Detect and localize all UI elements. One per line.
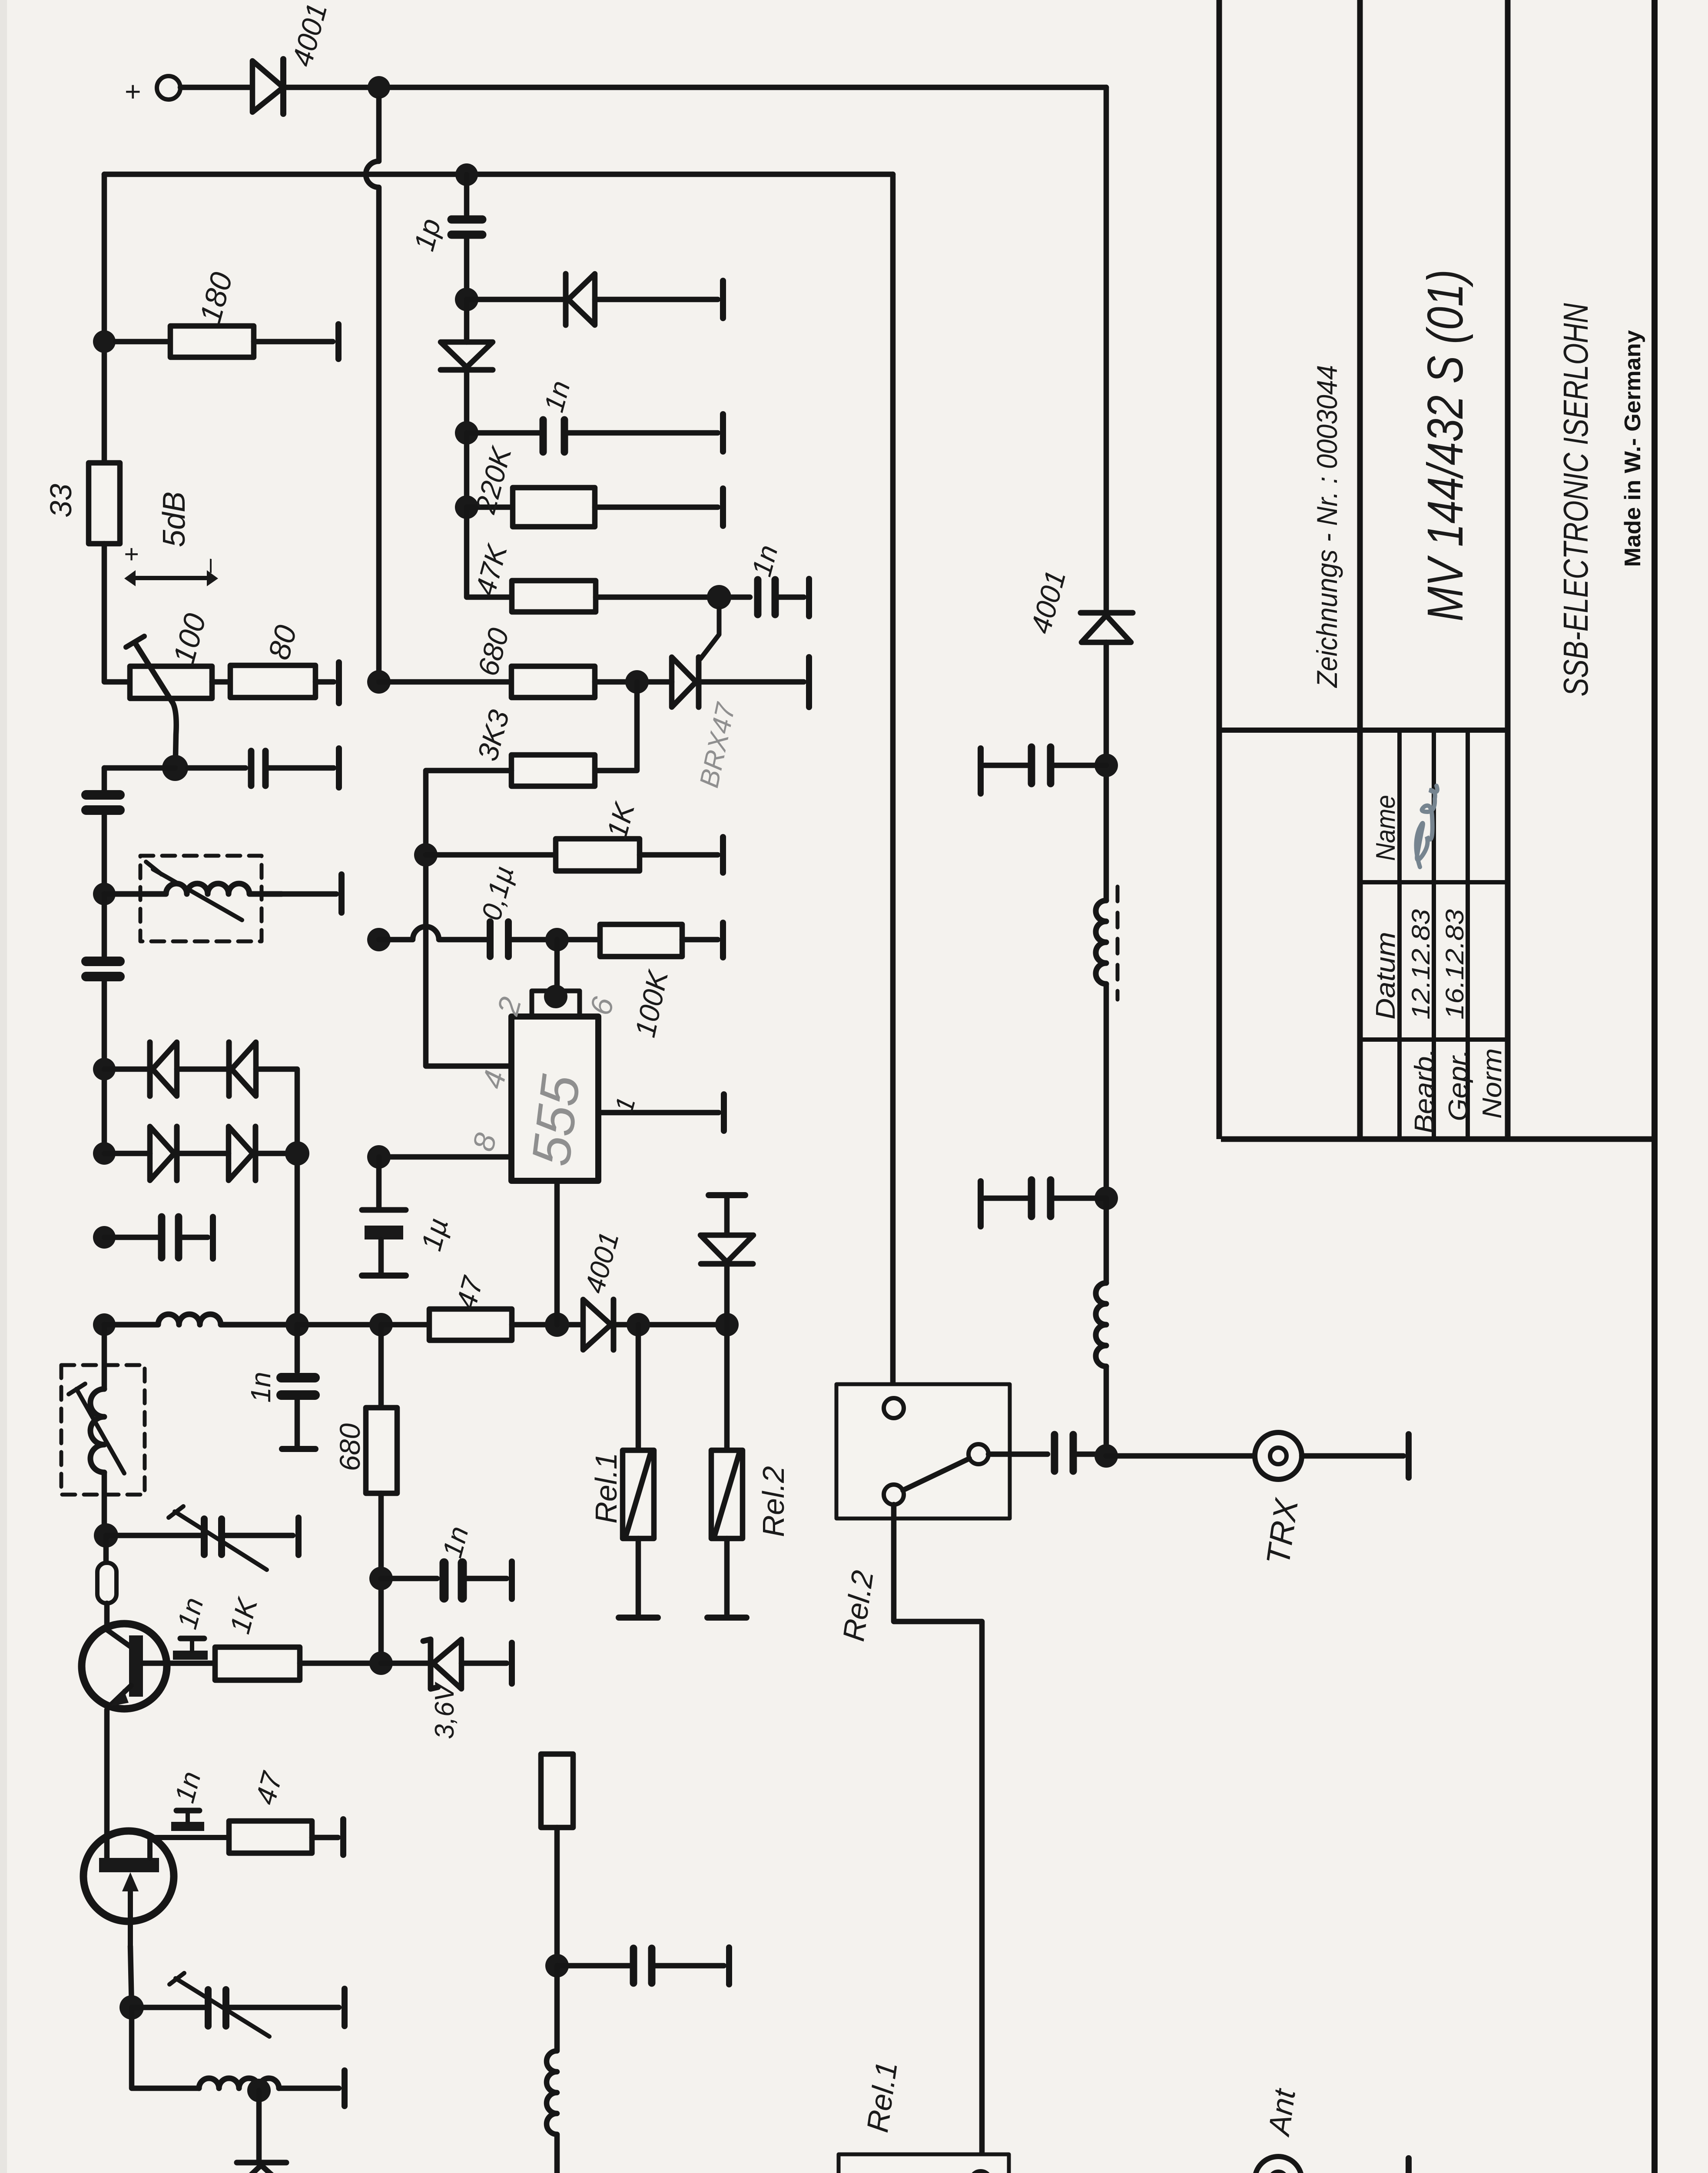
node wiper (162, 755, 188, 781)
node (1094, 754, 1118, 777)
inductor (gate coil) (199, 2078, 279, 2088)
wire (512, 937, 600, 943)
diode limiter D4 (177, 1151, 229, 1156)
ground (978, 748, 984, 794)
wire (312, 1835, 338, 1841)
wire (379, 679, 511, 685)
potentiometer 100 (130, 666, 212, 698)
wire (180, 85, 251, 90)
svg-text:Bearb.: Bearb. (1410, 1048, 1439, 1133)
ground (720, 923, 726, 957)
wire (106, 1533, 201, 1538)
svg-text:Rel.1: Rel.1 (589, 1452, 623, 1523)
wire (1106, 1453, 1255, 1459)
resistor 80 (230, 665, 315, 698)
ground (335, 324, 342, 359)
svg-text:Ant: Ant (1262, 2086, 1302, 2139)
wire (512, 1322, 580, 1328)
wire left bus down from corner (102, 174, 107, 463)
wire (467, 297, 563, 302)
node Rel.1 drive (627, 1313, 650, 1336)
node 1p tap (455, 163, 478, 186)
node 0,1u row (367, 928, 391, 951)
wire (595, 297, 718, 302)
node main RX bus left (93, 1313, 116, 1336)
node (545, 928, 569, 951)
ground (978, 1181, 984, 1226)
node 555 output (545, 1312, 569, 1337)
node (455, 288, 478, 311)
pin 8 wire (379, 1154, 511, 1160)
wire (279, 2086, 339, 2091)
wire (464, 433, 470, 507)
capacitor 1n (detector) (540, 420, 547, 452)
capacitor 1n (RX bus) (295, 1325, 300, 1372)
title block frame (1217, 0, 1222, 1139)
pin 3 wire (554, 1181, 560, 1325)
ground (720, 281, 726, 318)
relay Rel.2 (switch) (836, 1384, 1010, 1518)
wire (682, 937, 718, 943)
ground (726, 1947, 732, 1984)
wire base (143, 1661, 215, 1666)
capacitor (coupling lower) (985, 1196, 1028, 1201)
ground (338, 874, 345, 913)
node zener row (369, 1651, 393, 1675)
diode 4001 (supply) (252, 61, 283, 112)
inductor (RX line choke) (104, 1314, 297, 1325)
wire (1104, 642, 1109, 900)
relay coil Rel.1 (636, 1325, 641, 1450)
wire (1104, 984, 1109, 1198)
node Ant connector (1255, 2156, 1302, 2173)
svg-text:Made in W.- Germany: Made in W.- Germany (1620, 330, 1645, 567)
wire (212, 679, 230, 685)
wire (182, 1235, 208, 1240)
wire (188, 765, 245, 771)
diode (gate clamp) (256, 2090, 262, 2160)
svg-text:Name: Name (1371, 795, 1401, 861)
diode (relay clamp to ground) (709, 1192, 745, 1198)
wire (779, 595, 804, 600)
wire (102, 768, 107, 790)
op-amp U1 555 timer (532, 991, 580, 1017)
inductor (ladder choke) (547, 1966, 557, 2173)
wire (595, 679, 672, 685)
node (119, 1995, 144, 2020)
node + supply terminal (157, 76, 180, 100)
svg-text:Rel.2: Rel.2 (756, 1466, 790, 1537)
wire (596, 595, 750, 600)
resistor 47K (512, 581, 596, 612)
wire (595, 505, 718, 510)
node (455, 495, 478, 519)
resistor 680 (511, 666, 595, 698)
resistor 220K (467, 505, 513, 510)
resistor 180 (170, 326, 254, 357)
capacitor 1n (driver) (381, 1576, 437, 1582)
capacitor (series, bus 2) (86, 957, 120, 966)
node (247, 2079, 271, 2102)
node limiter row 2 (93, 1142, 116, 1165)
svg-text:5dB: 5dB (157, 492, 192, 547)
diode limiter D3 (104, 1151, 150, 1156)
diode limiter D1 (147, 1042, 153, 1096)
wire (102, 894, 107, 956)
pot wiper arm (135, 642, 176, 757)
capacitor (ladder bypass) (557, 1963, 630, 1969)
ground (806, 579, 812, 616)
wire (1104, 1366, 1109, 1456)
wire (256, 1069, 297, 1325)
pin 1 wire (598, 1110, 719, 1116)
diode (detector top) (563, 274, 569, 325)
node (367, 1145, 391, 1169)
ground (720, 837, 726, 873)
ground (1406, 1434, 1412, 1478)
ground (336, 662, 342, 703)
wire (102, 981, 107, 1153)
ground (336, 748, 342, 787)
node bypass row (93, 1226, 116, 1249)
svg-text:–: – (195, 558, 223, 573)
relay coil Rel.2 (724, 1325, 730, 1450)
wire (104, 1603, 110, 1630)
capacitor 1p (451, 216, 482, 224)
svg-text:555: 555 (521, 1072, 591, 1169)
wire (104, 544, 130, 682)
wire bus2 (104, 172, 893, 177)
diode limiter D2 (226, 1042, 232, 1096)
svg-text:+: + (117, 547, 146, 562)
wire V+ rail with hop over bus2 (366, 99, 379, 671)
wire (297, 1322, 381, 1328)
node trimmer tap (94, 1523, 118, 1548)
wire antenna feed down (1104, 87, 1109, 609)
relay Rel.1 (switch) (839, 2154, 1009, 2173)
svg-text:Norm: Norm (1477, 1048, 1507, 1119)
ground (1406, 2158, 1412, 2173)
ground (720, 414, 726, 452)
resistor 3K3 (511, 755, 595, 786)
capacitor (series, bus) (86, 790, 120, 800)
svg-text:Zeichnungs - Nr. : 0003044: Zeichnungs - Nr. : 0003044 (1311, 365, 1343, 688)
svg-text:16.12.83: 16.12.83 (1441, 909, 1469, 1020)
wire (269, 765, 334, 771)
svg-text:33: 33 (44, 484, 78, 518)
wire (132, 2005, 205, 2010)
ground (295, 1518, 302, 1555)
node (369, 1567, 393, 1590)
wire (177, 1067, 229, 1072)
wire (467, 507, 512, 597)
wire left bus into oscillator (102, 1325, 107, 1389)
wire (104, 765, 175, 771)
wire (102, 815, 107, 894)
node Rel.2 drive (715, 1313, 739, 1336)
node (545, 1954, 569, 1977)
wire (104, 1235, 158, 1240)
node gate tap (707, 585, 731, 609)
ground (806, 657, 812, 707)
resistor (output ladder) (541, 1754, 573, 1827)
wire (225, 1533, 293, 1538)
wire (568, 430, 718, 436)
thyristor BRX47 (672, 657, 696, 707)
svg-text:+: + (117, 84, 148, 100)
node 1p tap vertical (464, 175, 470, 215)
wire (255, 1151, 297, 1156)
capacitor (coupling upper) (985, 763, 1028, 768)
node (285, 1313, 309, 1336)
resistor 1K (base) (215, 1647, 300, 1680)
svg-text:1n: 1n (245, 1372, 276, 1402)
node TRX connector (1255, 1432, 1302, 1479)
wire Rel.2 NC to Rel.1 (894, 1505, 982, 2171)
inductor (variable, antenna) (1096, 900, 1106, 984)
inductor (antenna matching) (1104, 1198, 1109, 1283)
node (625, 670, 649, 694)
capacitor (bypass) (158, 1217, 166, 1258)
capacitor 1n (thyristor gate) (754, 580, 762, 615)
node (285, 1141, 309, 1166)
node tuned-circuit 1 (93, 883, 116, 905)
resistor 47 (fet) (229, 1821, 312, 1853)
ground (340, 1819, 346, 1855)
node 680 row (367, 670, 391, 694)
svg-text:MV 144/432 S (01): MV 144/432 S (01) (1417, 269, 1473, 621)
resistor 33 (89, 463, 120, 544)
ground (342, 2070, 348, 2106)
wire TX sense down (890, 174, 896, 1399)
diode (detector series) (464, 299, 470, 342)
resistor 100K (600, 924, 682, 957)
capacitor (TRX coupling) (1051, 1435, 1058, 1471)
wire with hop over 3K3 line (379, 927, 487, 940)
capacitor (wiper bypass) (248, 751, 255, 786)
diode zener 3,6V (381, 1661, 431, 1666)
wire (286, 85, 1106, 90)
wire gate down (130, 1946, 132, 2007)
wire (1302, 1453, 1403, 1459)
wire (229, 2005, 339, 2010)
ground (210, 1217, 216, 1259)
capacitor 1u (electrolytic) (376, 1157, 382, 1207)
wire (116, 339, 170, 345)
wire (464, 239, 470, 299)
capacitor trimmer (collector tank) (201, 1519, 208, 1555)
wire emitter down (107, 1707, 109, 1859)
ground (720, 488, 726, 526)
inductor (variable, shielded, oscillator) (61, 1365, 145, 1495)
wire (640, 852, 718, 858)
capacitor 1n (fet bypass) (171, 1822, 204, 1831)
transistor Q2 (jfet) (83, 1831, 174, 1921)
resistor 680 (driver) (378, 1325, 384, 1408)
capacitor 1n (base bypass) (173, 1651, 208, 1660)
wire (104, 1067, 150, 1072)
capacitor trimmer (gate tank) (205, 1990, 212, 2026)
svg-text:3,6V: 3,6V (430, 1681, 460, 1739)
svg-text:Gepr.: Gepr. (1443, 1049, 1473, 1121)
signature (1416, 786, 1437, 867)
svg-text:Datum: Datum (1371, 932, 1401, 1020)
node (455, 421, 478, 445)
resistor 47 (RX bus) (429, 1309, 512, 1340)
svg-text:680: 680 (334, 1423, 366, 1471)
wire Rel.2 common to TRX (988, 1452, 1048, 1457)
wire (104, 1472, 106, 1535)
diode 4001 (antenna line) (1081, 610, 1133, 616)
node (1094, 1186, 1118, 1210)
wire (315, 679, 334, 685)
wire (467, 430, 540, 436)
ferrite bead (103, 1535, 109, 1563)
ground (342, 1989, 348, 2026)
node limiter row 1 (93, 1058, 116, 1080)
wire (254, 339, 333, 345)
node (1094, 1444, 1118, 1468)
node (369, 1313, 393, 1336)
diode 4001 (output) (583, 1299, 611, 1350)
wire (132, 2007, 199, 2088)
wire (614, 1322, 727, 1328)
transistor Q1 (oscillator, npn) (82, 1624, 167, 1709)
wire (381, 1322, 429, 1328)
node 180 tap (93, 330, 116, 353)
inductor (variable, shielded) (140, 856, 262, 941)
wire (300, 1661, 381, 1666)
node V+ (368, 76, 390, 99)
title table (1397, 730, 1402, 1139)
wire 3K3 branch (595, 682, 637, 771)
svg-text:SSB-ELECTRONIC ISERLOHN: SSB-ELECTRONIC ISERLOHN (1556, 303, 1595, 696)
ground (721, 1094, 727, 1131)
svg-text:12.12.83: 12.12.83 (1407, 909, 1435, 1020)
wire pin2/6 (554, 940, 560, 991)
node 1K row (414, 843, 438, 867)
wire (426, 771, 511, 1066)
resistor 1K (reset) (426, 852, 556, 858)
capacitor 0,1u (487, 922, 494, 957)
